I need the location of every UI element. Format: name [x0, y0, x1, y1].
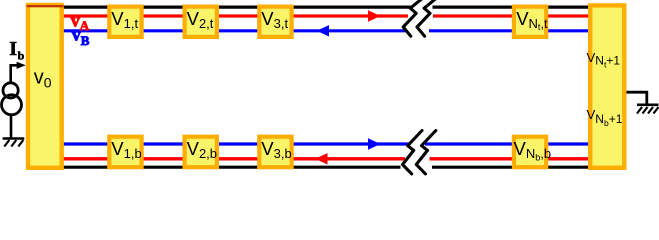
current source circle top	[3, 83, 18, 98]
wire bottom blue right segment	[425, 142, 589, 145]
arrow blue left (top rail)	[317, 25, 330, 36]
wire bottom red right segment	[430, 157, 589, 160]
box V1,b	[107, 135, 144, 170]
break gap white ribbon (bottom rail cut)	[403, 131, 436, 174]
break gap white ribbon (top rail cut)	[403, 0, 438, 36]
current source Ib: feed arrow wire	[11, 65, 19, 82]
svg-text:I: I	[9, 38, 17, 60]
ground left: bar	[3, 137, 25, 140]
ground left: hatches	[4, 140, 9, 147]
wire top blue right segment	[429, 29, 589, 32]
wire source to ground	[10, 116, 13, 138]
wire bottom black left segment (net bottom-ground conductor)	[61, 166, 401, 169]
wire top black over V0 border (blended strip)	[27, 5, 64, 7]
wire top red left segment (net A top)	[61, 14, 408, 17]
box V2,t	[183, 5, 220, 40]
arrow blue right (bottom rail)	[368, 138, 381, 149]
wire right block to ground	[627, 92, 647, 104]
ground right: hatches	[637, 107, 642, 114]
block VN+1 (right termination cell)	[588, 3, 627, 170]
wire top black left segment (net top-ground conductor)	[26, 5, 411, 8]
arrow red left (bottom rail)	[315, 153, 328, 164]
wire top blue left segment (net B top)	[61, 29, 406, 32]
break bolt bottom-left	[403, 131, 423, 174]
box V3,t	[257, 5, 294, 40]
wire bottom red left segment (net A bottom)	[61, 157, 405, 160]
block V0 (left feed cell)	[26, 3, 64, 170]
box VNt,t	[512, 5, 549, 40]
wire top black right segment	[433, 5, 589, 8]
arrow red right (top rail, wave direction)	[368, 10, 381, 21]
svg-text:b: b	[18, 48, 25, 62]
break bolt top-left	[403, 0, 424, 36]
ground right: bar	[637, 104, 659, 107]
box VNb,b	[512, 135, 551, 170]
wire bottom black right segment	[432, 166, 589, 169]
box V2,b	[183, 135, 220, 170]
current source circle bottom	[2, 95, 22, 115]
wire bottom blue left segment (net B bottom)	[61, 142, 411, 145]
box V1,t	[107, 5, 144, 40]
wire top red right segment	[433, 14, 589, 17]
current source arrowhead into V0	[17, 62, 26, 69]
break bolt bottom-right	[416, 131, 436, 174]
break bolt top-right	[417, 0, 438, 36]
box V3,b	[257, 135, 294, 170]
